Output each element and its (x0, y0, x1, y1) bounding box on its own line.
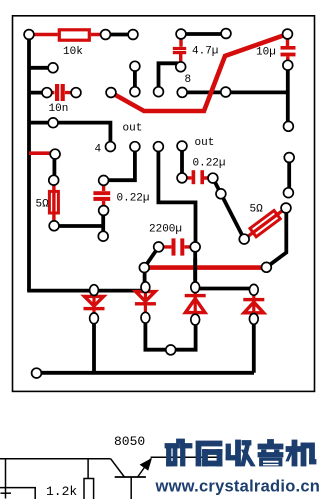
pad H1 (0.22uv top) (99, 176, 109, 186)
pad E2 (130, 142, 140, 152)
pad C3 (red trace start) (106, 88, 116, 98)
pad A4 (4.7u +) (176, 29, 186, 39)
transistor Q1: base bar (115, 476, 146, 478)
wire: L-run from out pad down-left to 0.22u vertical top pad (104, 147, 135, 181)
wire(red): stub from left bus to pad (29, 151, 51, 155)
wire: overdraw black vertical crossing red bus (193, 258, 197, 280)
wire: L-run from left bus through pad to "4" pad (29, 123, 110, 147)
pad A2 (10k right) (101, 30, 111, 40)
capacitor 4.7u leads (179, 34, 183, 62)
pad D1r (48, 118, 58, 128)
diode D2 triangle (136, 292, 155, 302)
capacitor 2200u leads (159, 245, 196, 248)
svg-text:5Ω: 5Ω (36, 199, 50, 211)
transistor Q1: emitter arrowhead (140, 458, 152, 471)
wire: segment pad to pad, top row right of 10k (106, 33, 134, 37)
pad K2 (red bus right) (262, 262, 272, 272)
watermark logo glyph SHOU (226, 440, 255, 466)
pad I0 (0.22uh left) (177, 173, 187, 183)
pad H3 (end) (98, 231, 108, 241)
svg-text:10n: 10n (49, 103, 69, 115)
pad L5 (D3 top) (191, 282, 200, 293)
wire: Z-run from out pad down to 2200u right pad (158, 147, 195, 247)
wire: horizontal diode D3 top pad to diode D4 top pad (195, 287, 254, 291)
pad L4 (D2 bottom) (141, 312, 150, 323)
capacitor 2200u plates (172, 238, 176, 255)
svg-text:8: 8 (185, 74, 192, 86)
pad E3 (154, 142, 164, 152)
wire: stub from left bus to pad at row2 (29, 66, 53, 70)
capacitor 10u leads (286, 34, 290, 61)
capacitor 0.22u (vertical) leads (102, 180, 105, 210)
pad K1 (red bus left) (139, 263, 149, 273)
pad I2 (mid diagonal) (216, 189, 226, 199)
capacitor 4.7u plates (173, 47, 186, 50)
resistor 1.2k body (84, 479, 94, 499)
pad C5 (154, 87, 164, 97)
wire: 0.22u vertical bottom pad to end pad (101, 211, 105, 237)
diode D4 triangle (244, 302, 264, 313)
wire: right column vertical pad-pad (287, 158, 291, 193)
pad F1 (right col) (284, 153, 294, 163)
wire: red-stub pad down to 5ohm vertical top pad (53, 154, 57, 180)
resistor 5ohm (diagonal) lead (244, 208, 286, 239)
svg-text:out: out (123, 123, 143, 135)
watermark logo glyph YIN (258, 440, 283, 467)
capacitor 0.22u (vertical) plates (93, 191, 110, 195)
pad L3 (D2 top) (141, 282, 150, 293)
pad J1 (2200u left) (154, 242, 164, 252)
pad L6 (D3 bottom) (191, 314, 200, 325)
svg-text:4: 4 (95, 144, 102, 156)
svg-text:8050: 8050 (114, 434, 145, 449)
pad L1 (D1 top) (90, 285, 99, 296)
wire: diagonal from 2200u left pad to red bus left end pad (144, 247, 158, 268)
diode D2 cathode bar (135, 302, 156, 305)
pad E4 (out) (177, 141, 187, 151)
diode D3 cathode bar (185, 294, 206, 297)
capacitor 0.22u (horizontal) leads (182, 176, 213, 180)
wire: out pad down to 0.22u horizontal left pad (180, 146, 184, 178)
pad A1 (10k left) (24, 30, 34, 40)
resistor 5ohm (vertical) lead through body (52, 180, 55, 225)
pad C1 (10n left) (42, 88, 52, 98)
pad M2 (on U-run) (166, 345, 176, 355)
resistor 10k body (59, 30, 89, 40)
pad L7 (D4 top) (249, 284, 258, 295)
wire: diode D4 bottom pad down to ground rail (252, 319, 256, 373)
pad A5 (221, 29, 231, 39)
schematic: top supply wire (left section) (0, 458, 111, 460)
wire: stub from left bus to capacitor 10n left pad (29, 91, 47, 95)
pad B1 (48, 63, 58, 73)
resistor 5ohm (diagonal) body (250, 210, 280, 236)
diode D3 (cathode up) lead (194, 287, 197, 319)
pad C4 (130, 87, 140, 97)
pad E1 (pin 4) (106, 142, 116, 152)
pad G1 (red stub) (50, 149, 60, 159)
diode D1 (cathode down) lead (92, 290, 95, 318)
wire: right bus vertical from 10u bottom pad down through T (286, 65, 290, 126)
wire: vertical from 2200u right pad down to diode D3 top pad (193, 247, 197, 287)
svg-text:10µ: 10µ (256, 47, 276, 59)
capacitor 10u plates (281, 46, 296, 50)
pad I1 (0.22uh right) (208, 173, 218, 183)
battery/box outline top (0, 488, 35, 499)
battery plus sign (1, 492, 12, 494)
pad C6 (177, 88, 187, 98)
watermark logo glyph KUANG (165, 439, 192, 466)
pad J2 (2200u right) (190, 242, 200, 252)
capacitor 10n leads (47, 91, 72, 94)
svg-text:0.22µ: 0.22µ (117, 193, 150, 205)
pad B3 (4.7u -) (176, 62, 186, 72)
svg-text:out: out (195, 137, 215, 149)
diode D1 cathode bar (84, 307, 105, 310)
wire: diagonal from 0.22u right pad through mid pad to 5ohm lower pad (213, 178, 244, 239)
board outline border (13, 16, 315, 392)
pad C7 (221, 87, 231, 97)
pad B4 (10u bottom) (283, 60, 293, 70)
wire: red-bus pad down to diode D2 top pad (143, 268, 147, 288)
wire: diode D1 bottom pad down to ground rail (92, 318, 96, 373)
diode D1 triangle (84, 296, 103, 306)
pad M1 (rail left) (32, 368, 42, 378)
watermark logo glyph SHI (196, 441, 222, 466)
svg-text:5Ω: 5Ω (250, 204, 264, 216)
transistor Q1: emitter diagonal (138, 459, 151, 478)
wire: run from 5ohm bottom pad right to 0.22u vertical bottom leg (54, 224, 103, 228)
pad I3 (5ohm d bottom) (239, 234, 249, 244)
capacitor 0.22u (horizontal) plates (192, 170, 196, 184)
wire: bottom ground rail (37, 371, 255, 375)
resistor 5ohm (vertical) body (49, 191, 58, 213)
wire: U-run diode D2 bottom pad to diode D3 bottom pad (145, 318, 195, 350)
svg-text:2200µ: 2200µ (149, 224, 182, 236)
transistor Q1 8050: collector diagonal (111, 459, 125, 477)
wire: L-run from pad row3 up and right to capacitor 4.7u bottom pad (159, 63, 179, 91)
resistor 10k leads (29, 33, 106, 37)
pad D2r (284, 121, 294, 131)
pad F2 (284, 188, 294, 198)
resistor 1.2k lead (87, 459, 89, 479)
transistor Q1: base lead down (130, 477, 132, 499)
svg-text:0.22µ: 0.22µ (193, 158, 226, 170)
wire(red): red bus from pad to pad above diode row (144, 265, 266, 270)
wire: main left vertical bus from pad A1 down to bottom-left corner (27, 35, 31, 291)
diode D3 triangle (185, 299, 205, 313)
pad C2 (10n right) (71, 88, 81, 98)
pad F3 (5ohm top) (281, 203, 291, 213)
pad L8 (D4 bottom) (249, 314, 258, 325)
capacitor 10n plates (55, 84, 59, 101)
wire: horizontal run from left bus corner to diode D2 top pad (27, 289, 145, 293)
svg-text:10k: 10k (63, 46, 83, 58)
pad A3 (128, 30, 138, 40)
wire: top row segment between 4.7u top pad and pad (181, 32, 226, 36)
watermark logo glyph JI (286, 440, 316, 466)
schematic: wire down to battery + (5, 459, 7, 499)
pad L2 (D1 bottom) (90, 313, 99, 324)
pad G3 (5ohm v bottom) (49, 221, 59, 231)
wire(red): long signal trace from 10n right net to 10u top pad (111, 34, 288, 111)
pad G2 (5ohm v top) (49, 175, 59, 185)
svg-text:4.7µ: 4.7µ (192, 46, 218, 58)
diode D4 (cathode up) lead (252, 290, 255, 319)
wire: short vertical pad-pad at x=135 (133, 66, 137, 92)
pad A6 (10u top) (283, 29, 293, 39)
svg-text:1.2k: 1.2k (46, 484, 77, 499)
pad B2 (130, 61, 140, 71)
schematic: top supply wire (right section, runs under logo) (151, 456, 218, 458)
svg-text:www.crystalradio.cn: www.crystalradio.cn (155, 478, 321, 496)
diode D2 (cathode down) lead (144, 287, 147, 318)
diode D4 cathode bar (243, 298, 264, 301)
wire: row3 long segment to right bus T-junction (182, 91, 288, 95)
wire: from pad down then diagonal to red bus right end pad (266, 208, 286, 267)
pad H2 (0.22uv bottom) (99, 206, 109, 216)
